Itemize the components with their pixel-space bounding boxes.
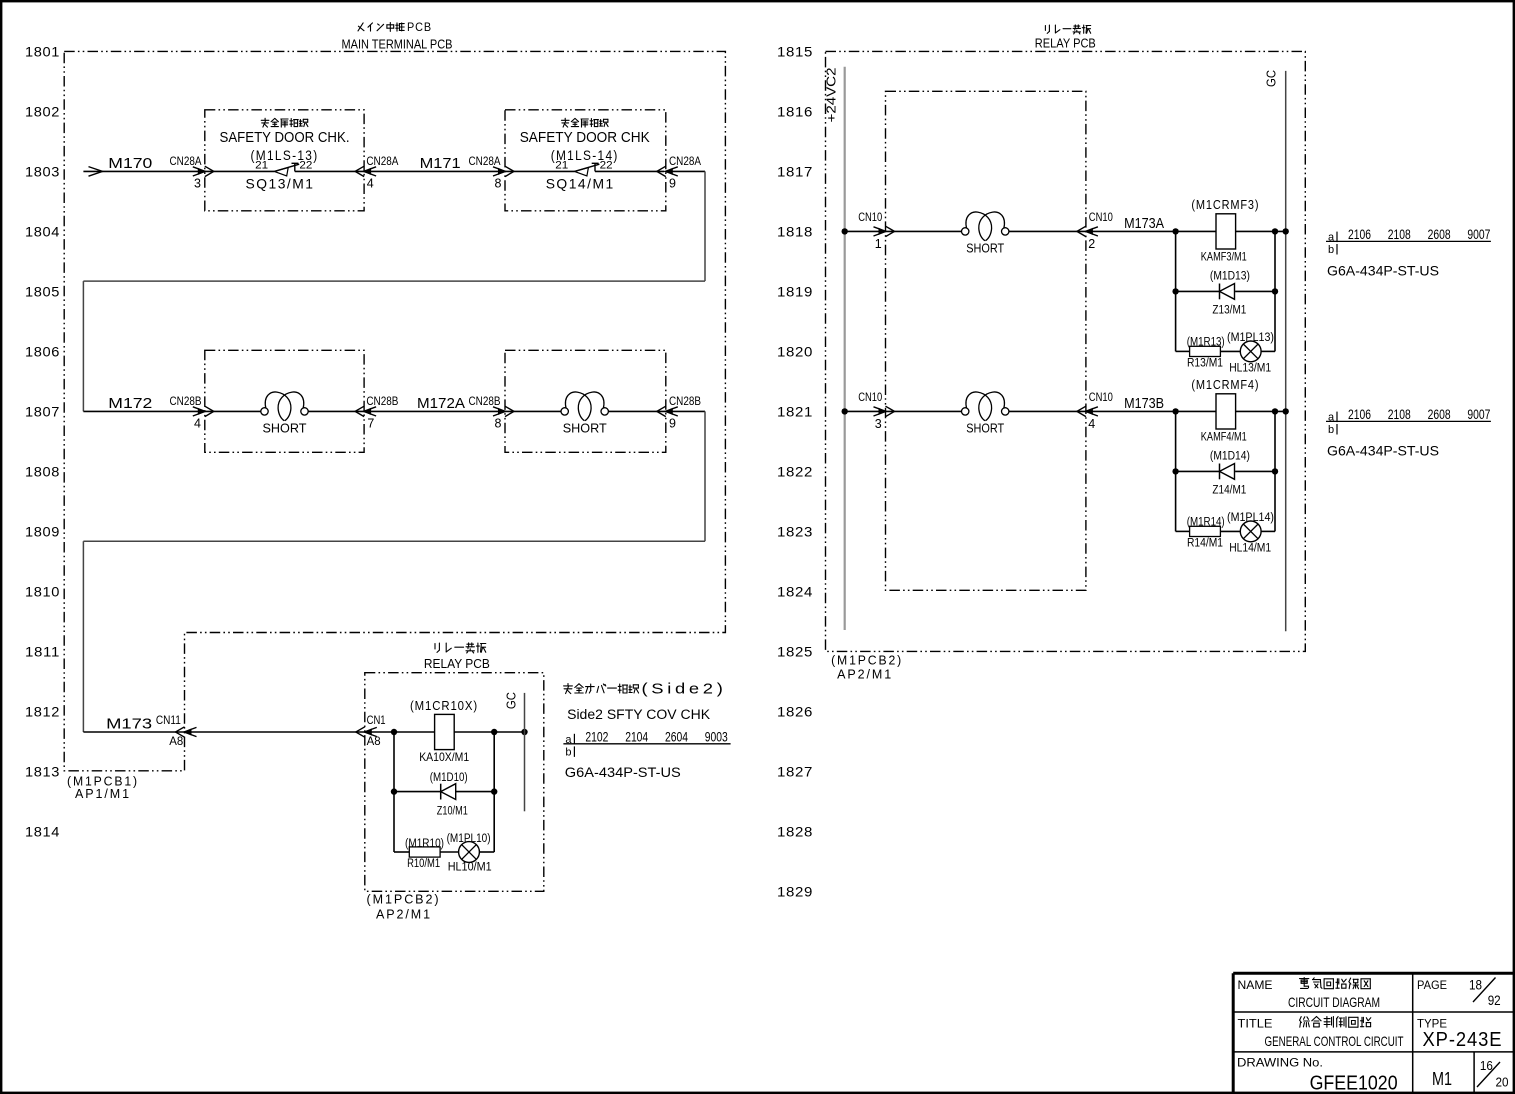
connector CN28A pin 9 arrow (657, 166, 678, 176)
destination table a/b for (M1CRMF4) (1326, 407, 1491, 436)
svg-text:M170: M170 (108, 155, 152, 172)
svg-text:9: 9 (669, 416, 676, 430)
jumper link SHORT 2 (561, 392, 608, 435)
row number labels 1801-1814 (25, 43, 60, 839)
svg-text:1803: 1803 (25, 163, 60, 179)
svg-text:2102: 2102 (585, 729, 608, 744)
svg-text:(M1CRMF3): (M1CRMF3) (1191, 197, 1259, 212)
svg-text:1822: 1822 (777, 463, 813, 479)
svg-text:92: 92 (1488, 992, 1501, 1008)
wire M173 (83, 731, 364, 733)
svg-text:(M1PCB2): (M1PCB2) (367, 891, 441, 906)
junction dots row M173B (1172, 408, 1289, 474)
title block TITLE cell (1238, 1016, 1404, 1049)
svg-text:2608: 2608 (1428, 407, 1451, 422)
svg-text:22: 22 (600, 159, 613, 171)
label CN28B pin 4 (170, 394, 202, 431)
svg-text:1802: 1802 (25, 103, 60, 119)
svg-text:(M1D13): (M1D13) (1210, 270, 1250, 282)
svg-text:NAME: NAME (1238, 978, 1273, 992)
svg-text:4: 4 (367, 176, 374, 190)
resistor R14/M1 (M1R14) (1187, 516, 1225, 549)
svg-text:(M1R13): (M1R13) (1187, 336, 1225, 348)
limit switch box SQ14 (safety door check) (505, 110, 666, 211)
svg-text:CN28A: CN28A (669, 154, 701, 168)
svg-text:(M1D14): (M1D14) (1210, 450, 1250, 462)
wire M172A (364, 410, 505, 412)
svg-text:(M1R10): (M1R10) (405, 838, 444, 850)
diode Z13/M1 (M1D13) (1210, 270, 1250, 316)
inner jumper sub-box (886, 91, 1086, 590)
destination table a/b 2102 2104 2604 9003 (563, 729, 730, 758)
resistor R10/M1 (M1R10) (405, 838, 444, 870)
svg-text:1813: 1813 (25, 763, 60, 779)
lamp HL10/M1 (M1PL10) (447, 833, 492, 874)
svg-text:GC: GC (1265, 70, 1279, 87)
svg-text:KAMF4/M1: KAMF4/M1 (1201, 430, 1247, 444)
svg-text:7: 7 (367, 416, 374, 430)
svg-text:CN28B: CN28B (366, 394, 398, 408)
svg-text:2108: 2108 (1388, 407, 1411, 422)
svg-text:22: 22 (299, 159, 312, 171)
svg-text:1820: 1820 (777, 343, 813, 359)
wire from CN28B-9 routing down to row 1809 and M173 (83, 411, 705, 732)
svg-text:HL14/M1: HL14/M1 (1229, 543, 1271, 555)
diode Z14/M1 (M1D14) (1210, 450, 1250, 496)
wire SHORT to relay row M173A (1009, 230, 1286, 232)
svg-text:SHORT: SHORT (966, 240, 1004, 255)
jumper box SHORT 2 (505, 350, 666, 452)
jumper link SHORT 1 (261, 392, 308, 435)
wire from CN28A-9 routing down to row 1805 (83, 171, 705, 411)
title block TYPE cell (1417, 1016, 1503, 1051)
svg-text:1808: 1808 (25, 463, 60, 479)
svg-text:8: 8 (495, 416, 502, 430)
svg-text:CN28B: CN28B (669, 394, 701, 408)
label M1PCB1 / AP1-M1 (67, 774, 139, 801)
connector CN1 pin A8 arrow (356, 727, 377, 737)
svg-text:21: 21 (255, 159, 268, 171)
wire M171 (364, 170, 505, 172)
title block sheet cell M1 16/20 (1432, 1058, 1509, 1090)
connector CN28A pin 8 arrow (493, 166, 514, 176)
note: safety cover check (Side2) (564, 680, 727, 722)
svg-text:Z14/M1: Z14/M1 (1212, 484, 1246, 496)
svg-text:1826: 1826 (777, 703, 813, 719)
svg-text:G6A-434P-ST-US: G6A-434P-ST-US (565, 764, 681, 780)
svg-text:R13/M1: R13/M1 (1187, 358, 1223, 370)
junction dot on +24VC2 at CN10-1 row (842, 228, 848, 234)
svg-text:1827: 1827 (777, 763, 813, 779)
svg-text:AP1/M1: AP1/M1 (75, 786, 131, 801)
resistor R13/M1 (M1R13) (1187, 336, 1225, 369)
svg-text:KAMF3/M1: KAMF3/M1 (1201, 250, 1247, 264)
svg-text:3: 3 (875, 417, 882, 431)
svg-text:(M1CRMF4): (M1CRMF4) (1191, 377, 1259, 392)
svg-text:CN28A: CN28A (170, 154, 202, 168)
svg-text:SQ13/M1: SQ13/M1 (246, 176, 315, 192)
svg-text:CN1: CN1 (367, 713, 386, 727)
svg-text:CN28B: CN28B (469, 394, 501, 408)
wire M170 with source arrow (83, 167, 204, 177)
svg-text:2: 2 (1088, 237, 1095, 251)
svg-text:1815: 1815 (777, 43, 813, 59)
relay PCB box (bottom, M1PCB2) (365, 673, 544, 892)
connector CN28A pin 4 arrow (355, 166, 376, 176)
connector CN11 pin A8 arrow (176, 727, 197, 737)
main terminal PCB title (342, 20, 453, 51)
relay coil loop wires ((M1CRMF3)) (1176, 231, 1275, 351)
svg-text:1814: 1814 (25, 823, 60, 839)
svg-text:b: b (1328, 424, 1334, 436)
svg-text:M172A: M172A (417, 395, 465, 412)
svg-text:2104: 2104 (625, 729, 648, 744)
+24VC2 power line (825, 67, 845, 630)
diode Z10/M1 (M1D10) (430, 772, 468, 818)
svg-text:PCB: PCB (407, 20, 432, 34)
svg-text:R10/M1: R10/M1 (407, 858, 440, 870)
svg-text:1: 1 (875, 237, 882, 251)
svg-text:1810: 1810 (25, 583, 60, 599)
svg-text:M173B: M173B (1124, 395, 1164, 412)
svg-text:(M1PL14): (M1PL14) (1227, 512, 1274, 524)
svg-text:SAFETY DOOR CHK: SAFETY DOOR CHK (520, 129, 650, 146)
svg-text:1825: 1825 (777, 643, 813, 659)
svg-text:SHORT: SHORT (563, 420, 607, 435)
label CN10 pin 1 (858, 210, 882, 251)
junction dot on +24VC2 at CN10-3 row (842, 408, 848, 414)
svg-text:SQ14/M1: SQ14/M1 (546, 176, 615, 192)
svg-text:18: 18 (1469, 976, 1482, 992)
svg-text:HL10/M1: HL10/M1 (448, 862, 492, 874)
wire +24VC2 to CN10-3 (845, 410, 962, 412)
svg-text:GENERAL CONTROL CIRCUIT: GENERAL CONTROL CIRCUIT (1265, 1033, 1404, 1049)
relay PCB box (right, M1PCB2) (826, 51, 1306, 651)
svg-text:8: 8 (495, 176, 502, 190)
wire M172 (83, 410, 204, 412)
svg-text:CN11: CN11 (156, 713, 181, 727)
svg-text:1828: 1828 (777, 823, 813, 839)
svg-text:9003: 9003 (705, 729, 728, 744)
svg-text:1812: 1812 (25, 703, 60, 719)
row number labels 1815-1829 (777, 43, 813, 899)
label CN10 pin 3 (858, 390, 882, 431)
svg-text:RELAY PCB: RELAY PCB (424, 656, 490, 671)
svg-text:CIRCUIT DIAGRAM: CIRCUIT DIAGRAM (1288, 994, 1380, 1010)
svg-text:CN10: CN10 (858, 210, 882, 224)
svg-text:M172: M172 (108, 395, 152, 412)
svg-text:HL13/M1: HL13/M1 (1229, 363, 1271, 375)
svg-text:1817: 1817 (777, 163, 813, 179)
svg-text:CN28A: CN28A (366, 154, 398, 168)
relay coil KAMF4/M1 (M1CRMF4) (1191, 377, 1259, 444)
svg-text:SAFETY DOOR CHK.: SAFETY DOOR CHK. (220, 129, 350, 146)
svg-text:1805: 1805 (25, 283, 60, 299)
svg-text:1807: 1807 (25, 403, 60, 419)
svg-text:RELAY PCB: RELAY PCB (1035, 37, 1096, 51)
svg-text:b: b (565, 746, 571, 758)
svg-text:G6A-434P-ST-US: G6A-434P-ST-US (1327, 263, 1439, 279)
junction dots on diode row (391, 788, 397, 794)
svg-text:CN28A: CN28A (469, 154, 501, 168)
svg-text:G6A-434P-ST-US: G6A-434P-ST-US (1327, 443, 1439, 459)
svg-text:b: b (1328, 244, 1334, 256)
svg-text:(M1CR10X): (M1CR10X) (410, 698, 478, 713)
svg-text:1818: 1818 (777, 223, 813, 239)
svg-text:CN28B: CN28B (170, 394, 202, 408)
connector CN28B pin 7 arrow (355, 406, 376, 416)
svg-text:Z10/M1: Z10/M1 (437, 806, 468, 818)
title block frame (1233, 973, 1513, 1092)
lamp HL13/M1 (M1PL13) (1227, 332, 1274, 375)
svg-text:M171: M171 (420, 155, 461, 172)
svg-text:1804: 1804 (25, 223, 60, 239)
label CN28A pin 9 (669, 154, 701, 191)
svg-text:MAIN TERMINAL PCB: MAIN TERMINAL PCB (342, 37, 453, 52)
svg-text:A8: A8 (169, 734, 183, 748)
svg-text:CN10: CN10 (858, 390, 882, 404)
title block NAME cell (1238, 978, 1381, 1010)
connector CN28B pin 8 arrow (493, 406, 514, 416)
svg-text:2608: 2608 (1428, 227, 1451, 242)
connector CN28B pin 9 arrow (657, 406, 678, 416)
connector CN10 pin 1 arrow (874, 226, 895, 236)
junction dots row M173A (1172, 228, 1289, 294)
svg-text:1811: 1811 (25, 643, 60, 659)
wire SHORT to relay row M173B (1009, 410, 1286, 412)
svg-text:21: 21 (555, 159, 568, 171)
svg-text:KA10X/M1: KA10X/M1 (419, 750, 469, 764)
svg-text:9007: 9007 (1467, 407, 1490, 422)
svg-text:2106: 2106 (1348, 407, 1371, 422)
svg-text:1824: 1824 (777, 583, 813, 599)
svg-text:9007: 9007 (1467, 227, 1490, 242)
svg-text:CN10: CN10 (1089, 390, 1113, 404)
svg-text:1816: 1816 (777, 103, 813, 119)
relay coil KA10X/M1 (M1CR10X) (410, 698, 478, 764)
svg-text:AP2/M1: AP2/M1 (376, 907, 432, 922)
svg-text:XP-243E: XP-243E (1423, 1029, 1503, 1051)
label M1PCB2 / AP2-M1 (right) (831, 653, 903, 682)
title block PAGE cell (1417, 976, 1501, 1008)
svg-text:R14/M1: R14/M1 (1187, 538, 1223, 550)
limit switch contact SQ13 pins 21-22 (205, 159, 364, 176)
svg-text:(M1D10): (M1D10) (430, 772, 468, 784)
svg-text:CN10: CN10 (1089, 210, 1113, 224)
svg-text:DRAWING No.: DRAWING No. (1237, 1056, 1323, 1070)
GC line (bottom relay PCB) (505, 692, 525, 811)
svg-text:(M1R14): (M1R14) (1187, 516, 1225, 528)
lamp HL14/M1 (M1PL14) (1227, 512, 1274, 555)
svg-text:TITLE: TITLE (1238, 1016, 1273, 1030)
svg-text:(Side2): (Side2) (642, 680, 727, 697)
svg-text:1829: 1829 (777, 883, 813, 899)
svg-text:1823: 1823 (777, 523, 813, 539)
svg-text:9: 9 (669, 176, 676, 190)
connector CN28A pin 3 arrow (193, 166, 214, 176)
wire +24VC2 to CN10-1 (845, 230, 962, 232)
label CN28B pin 8 (469, 394, 502, 431)
svg-text:PAGE: PAGE (1417, 978, 1447, 992)
svg-text:A8: A8 (367, 734, 381, 748)
relay coil loop wires ((M1CRMF4)) (1176, 411, 1275, 531)
title block DRAWING No cell (1237, 1056, 1398, 1094)
svg-text:(M1PCB2): (M1PCB2) (831, 653, 903, 668)
label CN28B pin 7 (366, 394, 398, 431)
svg-text:Z13/M1: Z13/M1 (1212, 304, 1246, 316)
svg-text:2106: 2106 (1348, 227, 1371, 242)
label M1PCB2 / AP2-M1 (bottom) (367, 891, 441, 921)
connector CN10 pin 2 arrow (1077, 226, 1098, 236)
destination table a/b for (M1CRMF3) (1326, 227, 1491, 256)
relay coil loop wires (394, 732, 494, 852)
svg-text:1801: 1801 (25, 43, 60, 59)
svg-text:Side2 SFTY COV CHK: Side2 SFTY COV CHK (567, 707, 710, 722)
svg-text:4: 4 (194, 416, 201, 430)
svg-text:20: 20 (1496, 1075, 1509, 1090)
GC line (right relay PCB) (1265, 70, 1286, 631)
label CN10 pin 2 (1088, 210, 1113, 251)
jumper link SHORT (row CN10-1) (962, 212, 1009, 255)
svg-text:3: 3 (194, 176, 201, 190)
svg-text:SHORT: SHORT (966, 420, 1004, 435)
main terminal PCB dash-dot outline (M1PCB1) (64, 51, 725, 770)
svg-text:1809: 1809 (25, 523, 60, 539)
label CN28B pin 9 (669, 394, 701, 431)
relay PCB title (right) (1035, 25, 1096, 51)
label CN28A pin 4 (366, 154, 398, 191)
limit switch box SQ13 (safety door check) (205, 110, 364, 211)
label CN10 pin 4 (1088, 390, 1113, 431)
svg-text:M173A: M173A (1124, 215, 1164, 232)
svg-text:AP2/M1: AP2/M1 (837, 667, 893, 682)
label CN11 pin A8 (156, 713, 184, 748)
svg-text:4: 4 (1088, 417, 1095, 431)
svg-text:GC: GC (505, 692, 519, 709)
svg-text:(M1PL10): (M1PL10) (447, 833, 491, 845)
svg-text:(M1PL13): (M1PL13) (1227, 332, 1274, 344)
svg-text:M1: M1 (1432, 1069, 1452, 1089)
relay coil KAMF3/M1 (M1CRMF3) (1191, 197, 1259, 264)
label CN1 pin A8 (367, 713, 386, 748)
svg-text:GFEE1020: GFEE1020 (1310, 1073, 1398, 1094)
svg-text:+24VC2: +24VC2 (825, 67, 839, 122)
connector CN10 pin 3 arrow (874, 406, 895, 416)
svg-text:2604: 2604 (665, 729, 688, 744)
svg-text:1819: 1819 (777, 283, 813, 299)
svg-text:1806: 1806 (25, 343, 60, 359)
connector CN10 pin 4 arrow (1077, 406, 1098, 416)
relay PCB title (bottom) (424, 643, 490, 671)
label CN28A pin 8 (469, 154, 502, 191)
jumper box SHORT 1 (205, 350, 364, 452)
jumper link SHORT (row CN10-3) (962, 392, 1009, 435)
limit switch contact SQ14 pins 21-22 (505, 159, 664, 176)
wire CN1 to relay coil and GC (365, 731, 525, 733)
svg-text:1821: 1821 (777, 403, 813, 419)
connector CN28B pin 4 arrow (193, 406, 214, 416)
svg-text:SHORT: SHORT (263, 420, 307, 435)
label CN28A pin 3 (170, 154, 202, 191)
svg-text:M173: M173 (106, 716, 152, 733)
svg-text:2108: 2108 (1388, 227, 1411, 242)
junction dots on M173 row (391, 729, 397, 735)
